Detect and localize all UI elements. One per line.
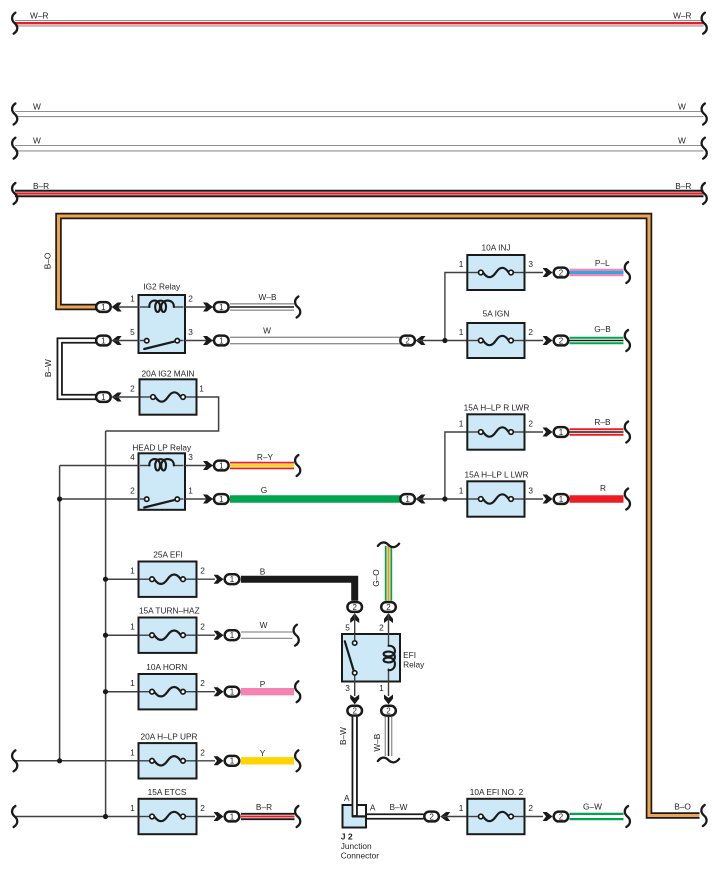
arrow into oval (EFI relay pin3): [350, 695, 359, 705]
arrow into oval (EFI out): [214, 575, 224, 584]
svg-text:5A IGN: 5A IGN: [483, 308, 510, 318]
svg-text:B–O: B–O: [43, 252, 53, 269]
arrow into oval (HORN out): [214, 687, 224, 696]
svg-text:P: P: [260, 679, 266, 689]
wire bus to HORN pin1: [106, 691, 139, 693]
svg-text:2: 2: [386, 603, 391, 612]
svg-text:1: 1: [230, 812, 235, 821]
svg-text:2: 2: [429, 812, 434, 821]
break left W-R: [12, 13, 17, 34]
svg-text:2: 2: [130, 384, 135, 394]
svg-text:1: 1: [219, 495, 224, 504]
wire HEAD LP pin 1 to connector: [185, 498, 213, 500]
break W-B bottom: [378, 758, 399, 763]
junction dot (LWR branch): [442, 496, 447, 501]
break left ETCS feed: [12, 806, 17, 827]
svg-text:2: 2: [528, 803, 533, 813]
svg-text:B–R: B–R: [256, 802, 272, 812]
svg-text:B–W: B–W: [43, 359, 53, 377]
svg-text:2: 2: [188, 294, 193, 304]
connector oval 1 (TURN-HAZ W): [225, 630, 240, 640]
wire G-B: [570, 337, 624, 345]
connector oval 1 (R LWR R-B): [554, 427, 569, 437]
arrow into oval (J2 side): [440, 812, 450, 821]
svg-text:1: 1: [130, 747, 135, 757]
fuse 20A IG2 MAIN box: [140, 379, 197, 414]
connector oval 1 (B-W to IG2 MAIN pin2): [96, 392, 111, 402]
connector oval 2 (EFI relay pin1 W-B): [381, 706, 396, 716]
arrow into oval (EFI NO.2 out): [543, 812, 553, 821]
svg-text:1: 1: [459, 327, 464, 337]
svg-text:A: A: [344, 793, 350, 803]
arrow into oval (IG2 pin2): [203, 303, 213, 312]
svg-text:W: W: [678, 136, 686, 146]
svg-text:15A ETCS: 15A ETCS: [148, 787, 187, 797]
arrow into oval (H-LP UPR out): [214, 756, 224, 765]
connector oval 1 (L LWR R): [554, 494, 569, 504]
coil HEAD LP relay: [140, 465, 151, 467]
fuse 15A TURN-HAZ box: [139, 618, 197, 653]
svg-text:EFI: EFI: [403, 650, 416, 660]
connector oval 1 (HORN P): [225, 687, 240, 697]
connector oval 1 (HEAD LP pin1 G): [214, 494, 229, 504]
svg-text:G–O: G–O: [371, 569, 381, 587]
svg-text:1: 1: [459, 419, 464, 429]
connector oval 1 (B-O to IG2 pin1): [96, 302, 111, 312]
break left W lower: [12, 138, 17, 159]
break left B-R: [12, 183, 17, 204]
wire EFI NO.2 pin2 out: [525, 816, 544, 818]
svg-text:1: 1: [101, 336, 106, 345]
break R-Y: [295, 455, 300, 476]
break P-L: [625, 262, 630, 283]
svg-text:1: 1: [559, 495, 564, 504]
svg-text:2: 2: [200, 566, 205, 576]
svg-text:B–O: B–O: [674, 801, 691, 811]
svg-text:W: W: [33, 136, 41, 146]
svg-text:HEAD LP Relay: HEAD LP Relay: [132, 442, 192, 452]
break right B-R: [702, 183, 707, 204]
wire IG2 pin 2 to connector: [185, 306, 213, 308]
svg-text:G–B: G–B: [594, 324, 611, 334]
svg-text:20A H–LP UPR: 20A H–LP UPR: [140, 732, 197, 742]
wire B-R (top): [15, 190, 704, 197]
break right W upper: [702, 104, 707, 125]
break G-O top: [378, 542, 399, 547]
junction dot (HEAD LP pin2 feed): [57, 496, 62, 501]
svg-text:P–L: P–L: [595, 258, 610, 268]
wire G-W: [570, 813, 624, 821]
coil EFI relay: [388, 634, 390, 646]
wire B-O (main feed): [59, 216, 700, 816]
wire arrow to IG2 pin 1: [113, 306, 139, 308]
svg-text:1: 1: [219, 303, 224, 312]
svg-text:1: 1: [405, 495, 410, 504]
fuse 5A IGN box: [467, 323, 524, 358]
fuse symbol EFI NO. 2: [468, 816, 478, 818]
wire oval to 10A EFI NO.2 pin 1: [442, 816, 468, 818]
J2 inner cell and wire through J2: [356, 806, 365, 815]
arrow into oval (IG2 pin1): [112, 303, 122, 312]
wire EFI relay pin 1 down: [388, 682, 390, 697]
junction dot (HORN): [103, 689, 108, 694]
svg-text:3: 3: [528, 259, 533, 269]
wire B-R (ETCS out): [241, 813, 295, 820]
wire 25A EFI pin2 out: [197, 578, 216, 580]
wire P (HORN out): [241, 688, 294, 695]
fuse 15A H-LP L LWR box: [467, 481, 524, 516]
svg-text:15A TURN–HAZ: 15A TURN–HAZ: [139, 606, 200, 616]
svg-text:1: 1: [459, 259, 464, 269]
break P: [295, 681, 300, 702]
svg-text:3: 3: [345, 683, 350, 693]
svg-text:1: 1: [101, 303, 106, 312]
wire R-Y (HEAD LP pin3 out): [230, 462, 294, 470]
wire R: [570, 495, 624, 502]
svg-text:B–R: B–R: [675, 181, 691, 191]
svg-text:1: 1: [230, 688, 235, 697]
break right W-R: [702, 13, 707, 34]
break R: [625, 489, 630, 510]
fuse 15A ETCS box: [139, 799, 197, 834]
fuse symbol 25A EFI: [140, 578, 150, 580]
wire oval to L LWR pin 1: [417, 498, 467, 500]
arrow into oval (IG2 pin3): [203, 336, 213, 345]
svg-text:10A HORN: 10A HORN: [146, 662, 187, 672]
svg-text:2: 2: [559, 268, 564, 277]
svg-text:B–W: B–W: [338, 727, 348, 745]
wire arrow to IG2 MAIN pin 2: [113, 396, 140, 398]
fuse symbol H-LP UPR: [140, 760, 150, 762]
wire bus to 25A EFI pin1: [106, 578, 139, 580]
wire W (lower): [15, 145, 704, 147]
arrow into oval (TURN-HAZ out): [214, 631, 224, 640]
svg-text:W: W: [33, 102, 41, 112]
wire HORN pin2 out: [197, 691, 216, 693]
wire oval to 5A IGN pin 1: [417, 340, 467, 342]
wire R-B: [570, 428, 624, 436]
svg-text:R–Y: R–Y: [257, 452, 274, 462]
arrow into oval (L LWR out): [543, 495, 553, 504]
wire B-W (J2 to connector): [366, 813, 424, 819]
svg-text:R: R: [600, 483, 606, 493]
svg-text:1: 1: [130, 803, 135, 813]
wire W-B (IG2 pin 2 out): [230, 303, 294, 305]
svg-text:2: 2: [352, 603, 357, 612]
svg-text:2: 2: [200, 803, 205, 813]
svg-text:J 2: J 2: [341, 831, 353, 841]
junction dot (ETCS / bus end): [103, 814, 108, 819]
break B-R ETCS: [295, 806, 300, 827]
wire R LWR pin2 out: [525, 431, 544, 433]
wire W (upper): [15, 111, 704, 113]
arrow into oval (EFI relay pin2): [384, 613, 393, 623]
svg-text:20A IG2 MAIN: 20A IG2 MAIN: [141, 369, 194, 379]
svg-text:1: 1: [199, 384, 204, 394]
wire EFI relay pin 3 down: [354, 682, 356, 697]
svg-text:2: 2: [559, 336, 564, 345]
svg-text:2: 2: [352, 707, 357, 716]
connector oval 2 (EFI relay pin3 B-W): [347, 706, 362, 716]
wire to HEAD LP pin 4: [60, 465, 139, 467]
wire branch up to R LWR pin 1: [445, 432, 467, 499]
switch HEAD LP relay: [140, 498, 144, 500]
fuse symbol ETCS: [140, 816, 150, 818]
break left H-LP UPR feed: [12, 750, 17, 771]
connector oval 1 (IG2 pin2 W-B): [214, 302, 229, 312]
wire W-B (EFI relay pin1 down): [384, 717, 386, 756]
svg-text:3: 3: [188, 452, 193, 462]
arrow into oval (HEAD LP pin1): [203, 495, 213, 504]
connector oval 2 (J2 B-W): [424, 812, 439, 822]
svg-text:5: 5: [345, 622, 350, 632]
coil IG2 relay: [140, 306, 151, 308]
break W TURN-HAZ: [294, 625, 299, 646]
svg-text:1: 1: [459, 486, 464, 496]
break left W upper: [12, 104, 17, 125]
wire B-W (EFI relay pin3 to J2): [352, 717, 358, 817]
fuse symbol 10A INJ: [468, 272, 478, 274]
svg-text:1: 1: [101, 393, 106, 402]
svg-text:3: 3: [528, 486, 533, 496]
connector oval 1 (B-W to IG2 pin5): [96, 336, 111, 346]
break W-B: [295, 297, 300, 318]
wire Y (H-LP UPR out): [241, 757, 294, 764]
wire IG2 pin 3 to connector: [185, 340, 213, 342]
wire arrow to IG2 pin 5: [113, 340, 139, 342]
arrow into oval (HEAD LP pin3): [203, 461, 213, 470]
svg-text:2: 2: [405, 336, 410, 345]
svg-text:1: 1: [219, 336, 224, 345]
svg-text:10A INJ: 10A INJ: [481, 242, 510, 252]
fuse symbol L LWR: [468, 498, 478, 500]
fuse symbol HORN: [140, 691, 150, 693]
connector oval 2 (B to EFI relay pin5): [347, 602, 362, 612]
svg-text:1: 1: [230, 757, 235, 766]
svg-text:W–B: W–B: [372, 733, 382, 751]
fuse symbol TURN-HAZ: [140, 634, 150, 636]
fuse symbol 5A IGN: [468, 340, 478, 342]
wire arrow to EFI relay pin 5: [354, 614, 356, 634]
svg-text:2: 2: [386, 707, 391, 716]
arrow into oval (L LWR side): [416, 495, 426, 504]
arrow into oval (EFI relay pin1): [384, 695, 393, 705]
svg-text:5: 5: [130, 327, 135, 337]
svg-text:1: 1: [219, 461, 224, 470]
wire 5A IGN pin2 out: [525, 340, 544, 342]
connector oval 1 (HEAD LP pin3 R-Y): [214, 461, 229, 471]
break B-O bottom right: [701, 805, 706, 826]
svg-text:W–R: W–R: [673, 10, 691, 20]
junction dot (TURN-HAZ): [103, 633, 108, 638]
svg-text:10A EFI NO. 2: 10A EFI NO. 2: [470, 787, 524, 797]
wire HEAD LP relay feed vertical: [59, 466, 61, 761]
arrow into oval (IG2 pin5): [112, 336, 122, 345]
svg-text:2: 2: [559, 812, 564, 821]
wire arrow to EFI relay pin 2: [388, 614, 390, 634]
connector oval 2 (INJ P-L): [554, 268, 569, 278]
wire to HEAD LP pin 2: [60, 498, 139, 500]
svg-text:15A H–LP L LWR: 15A H–LP L LWR: [465, 469, 529, 479]
wire ETCS pin2 out: [197, 816, 216, 818]
fuse 10A EFI NO. 2 box: [467, 799, 524, 834]
wire G (HEAD LP pin1 to H-LP L LWR): [230, 495, 400, 502]
wire 10A INJ pin3 out: [525, 272, 544, 274]
connector oval 1 (H-LP UPR Y): [225, 756, 240, 766]
relay IG2 box: [139, 295, 186, 353]
svg-text:Relay: Relay: [403, 660, 425, 670]
connector oval 1 (EFI B wire): [225, 574, 240, 584]
wire branch up to 10A INJ pin 1: [445, 273, 467, 341]
connector oval 2 (G-O to EFI relay pin2): [381, 602, 396, 612]
svg-text:G–W: G–W: [583, 802, 602, 812]
wire bus to TURN-HAZ pin1: [106, 634, 139, 636]
fuse symbol 20A IG2 MAIN: [141, 396, 151, 398]
wire W (TURN-HAZ out): [241, 631, 293, 633]
svg-text:1: 1: [379, 683, 384, 693]
wire off-page to ETCS pin1: [16, 816, 139, 818]
break right W lower: [702, 138, 707, 159]
arrow into oval (IGN out): [543, 336, 553, 345]
switch IG2 relay: [140, 340, 144, 342]
fuse 20A H-LP UPR box: [139, 743, 197, 778]
svg-text:2: 2: [200, 678, 205, 688]
svg-text:R–B: R–B: [594, 417, 611, 427]
break G-W: [625, 806, 630, 827]
svg-text:W: W: [263, 326, 271, 336]
svg-text:B: B: [260, 566, 266, 576]
svg-text:1: 1: [559, 428, 564, 437]
svg-text:Y: Y: [260, 748, 266, 758]
arrow into oval (R LWR out): [543, 428, 553, 437]
fuse 10A INJ box: [467, 255, 524, 290]
wire from 20A IG2 MAIN pin 1 (jog down to bus): [106, 397, 219, 431]
svg-text:W–B: W–B: [259, 292, 277, 302]
fuse 10A HORN box: [139, 674, 197, 709]
switch EFI relay: [354, 634, 356, 641]
wire W (IG2 pin3 to 5A IGN): [230, 336, 400, 338]
fuse 15A H-LP R LWR box: [467, 414, 524, 449]
arrow into oval (IG2 MAIN pin2): [112, 393, 122, 402]
connector oval 2 (IGN G-B): [554, 336, 569, 346]
svg-text:1: 1: [459, 803, 464, 813]
svg-text:B–W: B–W: [390, 802, 408, 812]
svg-text:2: 2: [200, 747, 205, 757]
svg-text:1: 1: [130, 294, 135, 304]
svg-text:W–R: W–R: [30, 10, 48, 20]
break G-B: [625, 330, 630, 351]
wire W-R (top, off-page both ends): [15, 20, 704, 22]
svg-text:1: 1: [230, 631, 235, 640]
svg-text:IG2 Relay: IG2 Relay: [143, 282, 181, 292]
break R-B: [625, 422, 630, 443]
junction dot (25A EFI): [103, 577, 108, 582]
wire TURN-HAZ pin2 out: [197, 634, 216, 636]
svg-text:A: A: [370, 803, 376, 813]
junction dot (IGN/INJ branch): [442, 338, 447, 343]
fuse symbol R LWR: [468, 431, 478, 433]
svg-text:1: 1: [188, 486, 193, 496]
svg-text:2: 2: [379, 622, 384, 632]
wire B-W loop (IG2 pin5 to IG2 MAIN pin2): [60, 341, 96, 398]
relay EFI box: [342, 634, 400, 682]
svg-text:Junction: Junction: [341, 841, 372, 851]
svg-text:Connector: Connector: [341, 851, 380, 861]
wire P-L: [570, 269, 624, 277]
wire bus vertical (battery feed): [105, 431, 107, 817]
arrow into oval (INJ out): [543, 268, 553, 277]
connector oval 1 (ETCS B-R): [225, 812, 240, 822]
connector oval 1 (G to L LWR): [400, 494, 415, 504]
svg-text:1: 1: [130, 622, 135, 632]
svg-text:G: G: [261, 485, 267, 495]
svg-text:2: 2: [528, 327, 533, 337]
svg-text:2: 2: [130, 486, 135, 496]
junction dot (H-LP UPR / head lp feed): [57, 758, 62, 763]
svg-text:1: 1: [130, 678, 135, 688]
connector oval 2 (W to 5A IGN): [400, 336, 415, 346]
wire H-LP UPR pin2 out: [197, 760, 216, 762]
wire HEAD LP pin 3 to connector: [185, 465, 213, 467]
fuse 25A EFI box: [139, 562, 197, 597]
svg-text:25A EFI: 25A EFI: [153, 550, 183, 560]
connector oval 2 (EFI NO.2 G-W): [554, 812, 569, 822]
svg-text:B–R: B–R: [33, 181, 49, 191]
svg-text:2: 2: [200, 622, 205, 632]
svg-text:1: 1: [130, 566, 135, 576]
svg-text:15A H–LP R LWR: 15A H–LP R LWR: [464, 402, 530, 412]
svg-text:W: W: [260, 620, 268, 630]
wire off-page to H-LP UPR pin1: [16, 760, 139, 762]
connector oval 1 (IG2 pin3 W): [214, 336, 229, 346]
wire G-O (to EFI relay pin2): [385, 546, 392, 601]
arrow into oval (5A IGN side): [416, 336, 426, 345]
svg-text:3: 3: [188, 327, 193, 337]
wire B (25A EFI to EFI relay pin5): [241, 579, 355, 601]
junction connector J2 box: [343, 805, 367, 828]
svg-text:2: 2: [528, 419, 533, 429]
arrow into oval (ETCS out): [214, 812, 224, 821]
svg-text:W: W: [678, 102, 686, 112]
break Y: [295, 750, 300, 771]
wire L LWR pin3 out: [525, 498, 544, 500]
arrow into oval (EFI relay pin5): [350, 613, 359, 623]
svg-text:4: 4: [130, 452, 135, 462]
svg-text:1: 1: [230, 575, 235, 584]
relay HEAD LP box: [139, 453, 186, 510]
